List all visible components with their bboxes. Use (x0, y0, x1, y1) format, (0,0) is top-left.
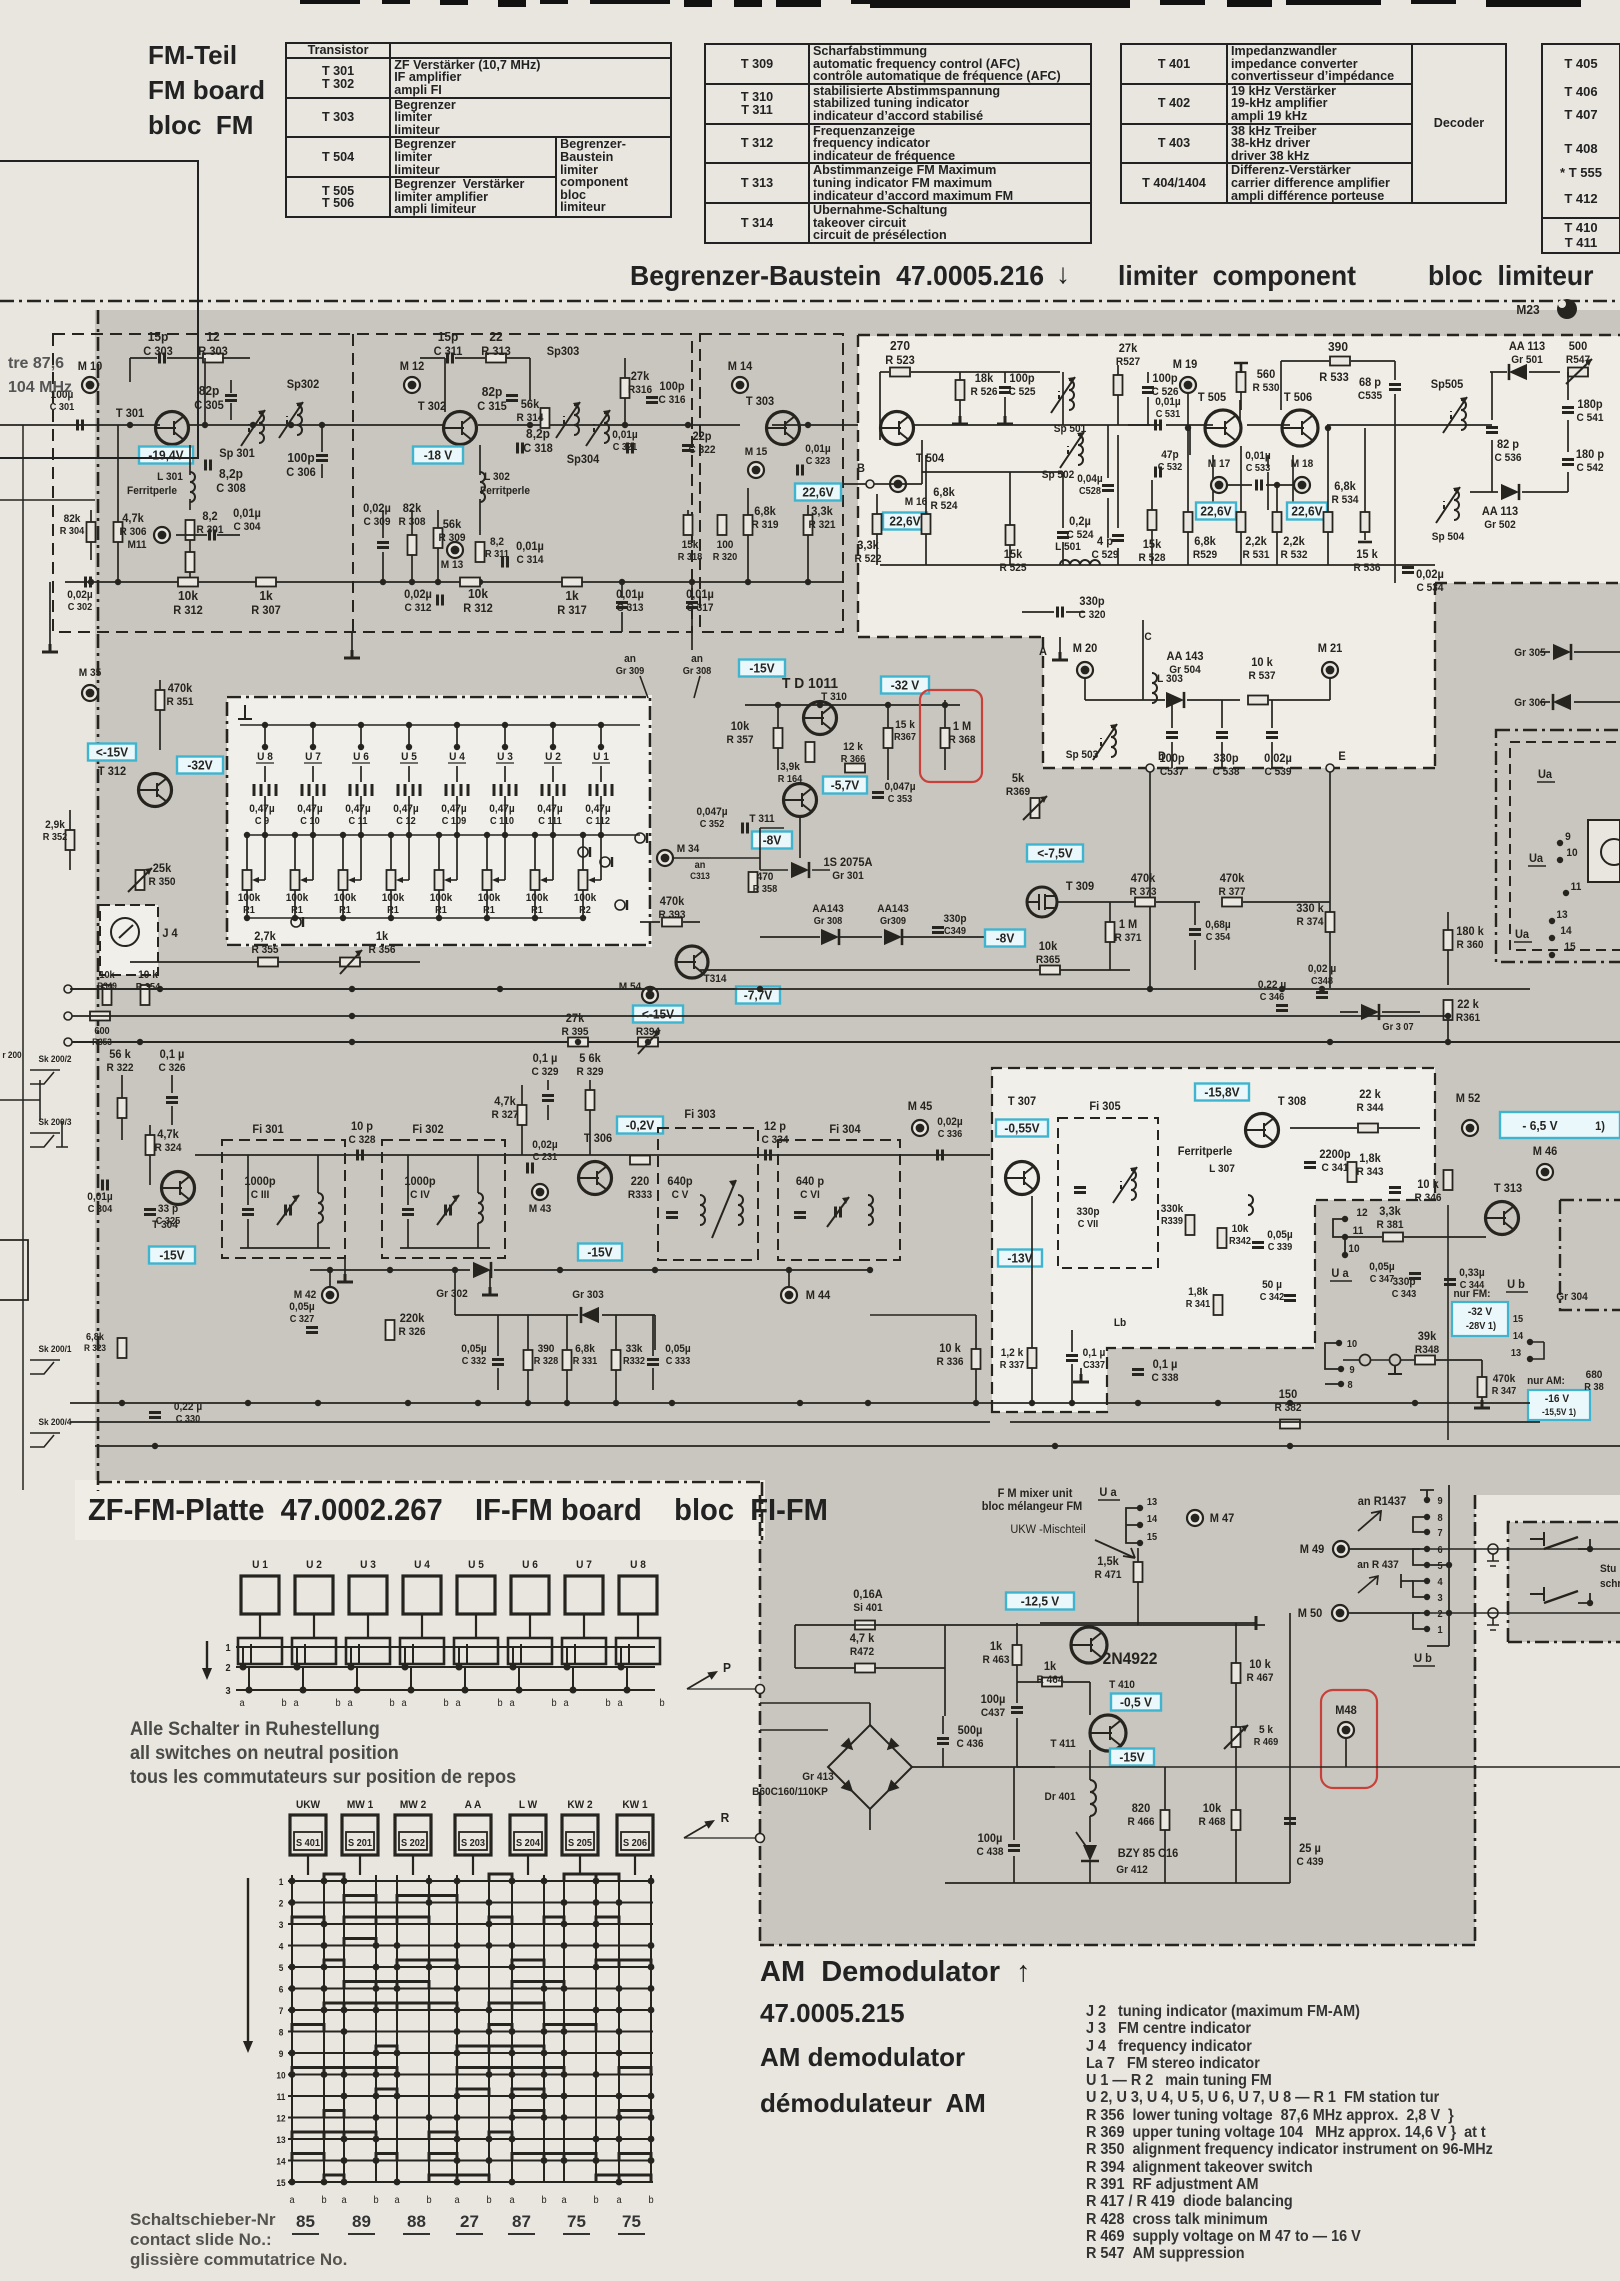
capacitor C539 0,02µ (1266, 733, 1278, 738)
voltage label -15V T304 (149, 1247, 195, 1264)
svg-text:Gr 305: Gr 305 (1514, 647, 1546, 659)
svg-text:2: 2 (1437, 1609, 1442, 1620)
svg-text:Fi 303: Fi 303 (684, 1109, 715, 1121)
capacitor C 111 0,47µ (542, 784, 564, 796)
svg-text:82 p: 82 p (1497, 439, 1519, 451)
voltage label -0,55V (996, 1120, 1048, 1137)
matrix column (396, 1875, 398, 2182)
voltage label -0,2V (617, 1117, 663, 1134)
capacitor C302 0,02µ (86, 577, 91, 588)
svg-text:330p: 330p (1079, 596, 1104, 608)
diode AA143 Gr309 (884, 929, 902, 945)
variable cap CIII (286, 1205, 291, 1216)
measurement point M35 (82, 685, 98, 701)
resistor R343 1,8k (1348, 1162, 1357, 1182)
svg-text:0,02µ: 0,02µ (1264, 753, 1292, 765)
svg-text:Sp 503: Sp 503 (1066, 749, 1099, 761)
svg-text:0,47µ: 0,47µ (345, 803, 370, 815)
resistor R320 100 (718, 515, 727, 535)
svg-text:AA 113: AA 113 (1509, 341, 1545, 353)
svg-text:10k: 10k (468, 587, 488, 602)
svg-text:C 318: C 318 (523, 443, 553, 455)
svg-text:C 110: C 110 (490, 816, 514, 827)
svg-text:0,1 µ: 0,1 µ (1083, 1347, 1106, 1359)
svg-text:U 6: U 6 (522, 1559, 538, 1571)
svg-text:nur FM:: nur FM: (1453, 1288, 1490, 1300)
svg-text:3: 3 (1437, 1593, 1442, 1604)
svg-text:10k: 10k (178, 589, 198, 604)
svg-text:R2: R2 (579, 905, 591, 916)
left rail end connectors (64, 985, 72, 993)
svg-text:6: 6 (279, 1984, 284, 1994)
svg-text:P: P (723, 1661, 731, 1676)
svg-text:C 317: C 317 (687, 602, 714, 614)
svg-text:1k: 1k (565, 589, 578, 604)
svg-text:C V: C V (672, 1189, 689, 1201)
svg-text:R 347: R 347 (1492, 1386, 1517, 1397)
resistor R317 1k (562, 578, 582, 587)
svg-text:R316: R316 (628, 384, 652, 396)
svg-text:470: 470 (757, 871, 774, 883)
svg-text:0,01µ: 0,01µ (805, 443, 830, 455)
svg-text:R 324: R 324 (155, 1142, 182, 1154)
wire T311 emitter (799, 816, 801, 858)
wire U 8 down (264, 796, 266, 835)
limiter area dashed border bottom-left (858, 636, 1043, 638)
resistor R536 15k (1361, 512, 1370, 532)
svg-text:10: 10 (1347, 1339, 1357, 1350)
svg-text:B60C160/110KP: B60C160/110KP (752, 1786, 828, 1798)
svg-text:0,16A: 0,16A (853, 1589, 883, 1601)
band switch S 204 (510, 1815, 546, 1855)
svg-text:C528: C528 (1079, 486, 1102, 497)
svg-text:6,8k: 6,8k (1194, 536, 1216, 548)
svg-text:6,8k: 6,8k (754, 506, 776, 518)
svg-text:U 2: U 2 (306, 1559, 322, 1571)
node E (1326, 764, 1334, 772)
resistor R309 56k (434, 528, 443, 548)
resistor R337 1,2k (1028, 1348, 1037, 1368)
capacitor CV 640p (666, 1213, 678, 1218)
svg-text:L 303: L 303 (1157, 673, 1183, 685)
svg-text:R 374: R 374 (1297, 916, 1324, 928)
matrix dots and bridges (289, 1878, 296, 1885)
svg-text:T 313: T 313 (1494, 1183, 1522, 1195)
choke Dr401 (1090, 1780, 1096, 1816)
svg-text:68 p: 68 p (1359, 377, 1381, 389)
resistor R371 1M (1106, 922, 1115, 942)
capacitor C315 82p (506, 396, 518, 401)
signal rail top section (0, 424, 160, 426)
svg-text:500: 500 (1569, 341, 1587, 353)
capacitor C329 (542, 1096, 554, 1101)
transistor T310 (804, 702, 837, 735)
svg-text:8: 8 (1437, 1513, 1443, 1524)
resistor R468 10k (1232, 1810, 1241, 1830)
svg-text:640p: 640p (667, 1176, 692, 1188)
svg-text:15k: 15k (1004, 549, 1023, 561)
svg-text:0,02µ: 0,02µ (363, 503, 391, 515)
svg-text:470k: 470k (1220, 873, 1245, 885)
svg-text:100k: 100k (334, 892, 357, 904)
svg-text:M 50: M 50 (1298, 1608, 1323, 1620)
coil Fi301 (318, 1193, 323, 1223)
svg-text:Sp 502: Sp 502 (1042, 469, 1075, 481)
resistor R393 470k (662, 918, 682, 927)
capacitor C538 330p (1216, 733, 1228, 738)
resistor R307 1k (256, 578, 276, 587)
svg-text:10: 10 (1566, 847, 1577, 859)
svg-text:3,3k: 3,3k (857, 540, 879, 552)
svg-text:10 k: 10 k (939, 1343, 961, 1355)
transistor T411 (1090, 1715, 1126, 1751)
svg-text:M11: M11 (127, 539, 146, 551)
measurement point M15 (748, 462, 764, 478)
svg-text:12: 12 (206, 330, 219, 345)
diode Gr307 (1361, 1004, 1379, 1020)
rail AM bottom (945, 1882, 1290, 1884)
svg-text:R361: R361 (1456, 1012, 1480, 1024)
capacitor C529 4p (1112, 536, 1124, 541)
transistor T302 (444, 412, 477, 445)
svg-text:C 525: C 525 (1009, 386, 1036, 398)
resistor R367 15k (884, 728, 893, 748)
capacitor C231 0,02µ (528, 1163, 533, 1174)
resistor R333 220 (630, 1156, 650, 1165)
svg-text:0,01µ: 0,01µ (1245, 450, 1270, 462)
svg-text:C: C (1144, 631, 1152, 643)
capacitor C525 100p (999, 388, 1011, 393)
resistor R303 12 (203, 354, 223, 363)
svg-text:Ferritperle: Ferritperle (1178, 1146, 1233, 1158)
resistor R354 10k (141, 985, 150, 1005)
svg-text:C 354: C 354 (1206, 932, 1231, 943)
capacitor C322 22p (682, 446, 694, 451)
svg-text:1,8k: 1,8k (1359, 1153, 1381, 1165)
resistor R530 560 (1237, 372, 1246, 392)
matrix column (428, 1875, 430, 2182)
svg-text:500µ: 500µ (958, 1725, 983, 1737)
capacitor C332 0,05µ (492, 1360, 504, 1365)
svg-text:C 315: C 315 (477, 401, 507, 413)
capacitor C344 0,33µ (1444, 1280, 1456, 1285)
resistor R331 6,8k (563, 1350, 572, 1370)
svg-text:9: 9 (1349, 1365, 1354, 1376)
capacitor C317 0,01µ (686, 603, 698, 608)
matrix column (291, 1875, 293, 2182)
svg-text:10: 10 (276, 2070, 285, 2080)
wire C526 col (1147, 372, 1149, 383)
decoder connector box (1560, 1200, 1620, 1310)
svg-text:5k: 5k (1012, 773, 1025, 785)
svg-text:C 320: C 320 (1079, 609, 1106, 621)
svg-text:R 466: R 466 (1128, 1816, 1155, 1828)
svg-text:Fi 305: Fi 305 (1089, 1101, 1121, 1113)
svg-text:R 303: R 303 (198, 346, 227, 358)
svg-text:4,7k: 4,7k (494, 1096, 516, 1108)
svg-text:b: b (389, 1698, 394, 1709)
matrix column (563, 1875, 565, 2182)
svg-text:22p: 22p (692, 431, 711, 443)
capacitor C349 330p (932, 928, 944, 933)
svg-text:3,9k: 3,9k (780, 761, 800, 773)
svg-text:R1: R1 (435, 905, 447, 916)
svg-text:0,1 µ: 0,1 µ (160, 1049, 185, 1061)
capacitor C537 100p (1166, 733, 1178, 738)
FM stage dashed box divider (352, 334, 354, 632)
svg-text:820: 820 (1132, 1803, 1150, 1815)
variable cap CVI (836, 1207, 841, 1218)
svg-text:Sp505: Sp505 (1431, 379, 1464, 391)
svg-text:0,02 µ: 0,02 µ (1308, 963, 1336, 975)
svg-text:R333: R333 (628, 1189, 652, 1201)
tuning section U 3 (502, 722, 508, 728)
capacitor C321 0,01µ (628, 443, 633, 454)
svg-text:R332: R332 (623, 1356, 645, 1367)
svg-text:1000p: 1000p (404, 1176, 435, 1188)
wires bridge (869, 1703, 871, 1725)
svg-text:T 312: T 312 (98, 766, 126, 778)
arrow P (687, 1672, 716, 1689)
band switch S 201 (342, 1815, 378, 1855)
svg-text:-32V: -32V (187, 758, 213, 773)
svg-text:U 8: U 8 (257, 751, 273, 763)
svg-text:6,8k: 6,8k (1334, 481, 1356, 493)
measurement point M12 (404, 377, 420, 393)
svg-text:390: 390 (1328, 340, 1348, 355)
coil L501 (1060, 560, 1100, 565)
svg-text:470k: 470k (1493, 1373, 1516, 1385)
svg-text:a: a (341, 2195, 347, 2206)
svg-text:C 339: C 339 (1268, 1242, 1293, 1253)
svg-text:C 347: C 347 (1370, 1274, 1395, 1285)
svg-text:7: 7 (1437, 1528, 1442, 1539)
svg-text:Ferritperle: Ferritperle (127, 485, 177, 497)
filter box Fi303 (658, 1128, 758, 1260)
svg-text:6,8k: 6,8k (575, 1343, 595, 1355)
ground stage1 (42, 644, 58, 652)
svg-text:5: 5 (279, 1963, 284, 1973)
svg-text:Sk 200/1: Sk 200/1 (38, 1344, 71, 1354)
capacitor CIV 1000p (402, 1210, 414, 1215)
svg-text:Gr 304: Gr 304 (1556, 1291, 1588, 1303)
svg-text:180 k: 180 k (1456, 926, 1484, 938)
capacitor C437 100µ (1011, 1708, 1023, 1713)
resistor R344 22k (1358, 1124, 1378, 1133)
svg-text:C 532: C 532 (1158, 462, 1183, 473)
resistor R529 6,8k (1184, 512, 1193, 532)
svg-text:0,01µ: 0,01µ (1155, 396, 1180, 408)
svg-text:0,01µ: 0,01µ (233, 508, 261, 520)
svg-text:C 306: C 306 (286, 467, 315, 479)
left margin vertical wire (22, 425, 24, 1490)
svg-text:1: 1 (225, 1643, 231, 1654)
svg-text:0,05µ: 0,05µ (461, 1343, 486, 1355)
svg-text:R 530: R 530 (1253, 382, 1280, 394)
FM stage dashed box 1 (53, 334, 692, 632)
svg-text:a: a (239, 1698, 245, 1709)
svg-text:100: 100 (717, 539, 734, 551)
coil Sp505 (1461, 400, 1466, 430)
measurement point M20 (1077, 662, 1093, 678)
svg-text:1,5k: 1,5k (1097, 1556, 1119, 1568)
red box M48 (1321, 1690, 1377, 1788)
wire U 3 down (504, 796, 506, 835)
transistor T506 (1282, 410, 1318, 446)
svg-text:R1: R1 (483, 905, 495, 916)
svg-text:0,02µ: 0,02µ (67, 589, 92, 601)
measurement point M47 (1187, 1510, 1203, 1526)
svg-text:C 330: C 330 (176, 1414, 201, 1425)
svg-text:-0,55V: -0,55V (1004, 1121, 1040, 1136)
svg-text:T 303: T 303 (746, 396, 774, 408)
svg-text:b: b (443, 1698, 448, 1709)
svg-text:R 537: R 537 (1249, 670, 1276, 682)
capacitor C311 15p (448, 353, 453, 364)
svg-text:U 5: U 5 (401, 751, 417, 763)
svg-text:M 47: M 47 (1210, 1513, 1235, 1525)
svg-text:T 311: T 311 (749, 813, 774, 825)
svg-text:R 471: R 471 (1095, 1569, 1122, 1581)
svg-text:Sk 200/2: Sk 200/2 (38, 1054, 71, 1064)
svg-text:-8V: -8V (763, 833, 782, 848)
switch symbols mid (1360, 1355, 1371, 1366)
svg-text:R 468: R 468 (1199, 1816, 1226, 1828)
svg-text:M 35: M 35 (79, 667, 102, 679)
capacitor C330 0,22µ (149, 1413, 161, 1418)
svg-text:Sp304: Sp304 (567, 454, 600, 466)
svg-text:R 326: R 326 (399, 1326, 426, 1338)
svg-text:T 506: T 506 (1284, 392, 1312, 404)
resistor R329 (586, 1090, 595, 1110)
limiter area dashed border inner vertical (1042, 637, 1044, 768)
coil Fi303 pair (700, 1195, 705, 1225)
potentiometer R1 100k (243, 870, 252, 890)
voltage label -12,5V (1006, 1593, 1074, 1610)
svg-text:AA143: AA143 (877, 903, 909, 915)
svg-text:S 401: S 401 (296, 1838, 321, 1849)
svg-text:R 337: R 337 (1000, 1360, 1025, 1371)
svg-text:UKW: UKW (296, 1799, 320, 1811)
resistor R342 10k (1218, 1228, 1227, 1248)
voltage label -7,7V (736, 987, 780, 1004)
svg-text:C 529: C 529 (1092, 549, 1119, 561)
band switch S 202 (395, 1815, 431, 1855)
resistor R312 10k (178, 578, 198, 587)
svg-text:1: 1 (279, 1877, 284, 1887)
svg-text:0,02µ: 0,02µ (1416, 569, 1444, 581)
svg-text:330p: 330p (1213, 753, 1238, 765)
svg-text:33k: 33k (626, 1343, 643, 1355)
gray background AM demodulator block (760, 1495, 1475, 1945)
resistor R537 10k (1248, 696, 1268, 705)
svg-text:C 336: C 336 (938, 1129, 963, 1140)
resistor R467 10k (1232, 1663, 1241, 1683)
svg-text:M 43: M 43 (529, 1203, 552, 1215)
svg-text:0,047µ: 0,047µ (696, 806, 727, 818)
resistor R464 1k (1042, 1678, 1062, 1687)
svg-text:330k: 330k (1161, 1203, 1184, 1215)
voltage label -5,7V (823, 777, 867, 794)
AM demodulator block left border (759, 1495, 762, 1945)
svg-text:0,04µ: 0,04µ (1077, 473, 1102, 485)
svg-text:R 312: R 312 (173, 605, 202, 617)
capacitor C341 2200p (1304, 1163, 1316, 1168)
switch square U 7 (565, 1576, 603, 1614)
svg-text:D: D (1158, 751, 1166, 763)
svg-text:C 11: C 11 (349, 816, 369, 827)
svg-text:C 304: C 304 (88, 1204, 113, 1215)
resistor R463 1k (1013, 1645, 1022, 1665)
svg-text:Dr 401: Dr 401 (1045, 1791, 1076, 1803)
transistor T504 (881, 412, 914, 445)
svg-text:27k: 27k (631, 371, 650, 383)
matrix column (618, 1875, 620, 2182)
matrix column (650, 1875, 652, 2182)
svg-text:2: 2 (225, 1663, 230, 1674)
svg-text:b: b (593, 2195, 598, 2206)
svg-text:Ua: Ua (1538, 769, 1553, 781)
capacitor C309 0,02µ (377, 543, 389, 548)
svg-text:U a: U a (1099, 1487, 1117, 1499)
variable cap Sp501 area (1069, 380, 1074, 410)
matrix column (343, 1875, 345, 2182)
svg-text:R 395: R 395 (562, 1026, 589, 1038)
resistor R531 2,2k (1237, 512, 1246, 532)
svg-text:U b: U b (1507, 1279, 1525, 1291)
tuning section U 6 (358, 722, 364, 728)
switch square U 6 (511, 1576, 549, 1614)
svg-text:C 312: C 312 (405, 602, 432, 614)
svg-text:0,01µ: 0,01µ (616, 589, 644, 601)
svg-text:6,8k: 6,8k (86, 1332, 105, 1343)
diode Gr302 (473, 1262, 491, 1278)
svg-text:640 p: 640 p (796, 1176, 824, 1188)
resistor R528 15k (1148, 510, 1157, 530)
svg-text:E: E (1338, 751, 1346, 763)
resistor R526 18k (956, 380, 965, 400)
resistor R532 2,2k (1273, 512, 1282, 532)
resistor R321 3,3k (804, 515, 813, 535)
svg-text:b: b (659, 1698, 664, 1709)
svg-text:A A: A A (465, 1799, 482, 1811)
svg-text:b: b (497, 1698, 502, 1709)
svg-text:C IV: C IV (410, 1189, 430, 1201)
svg-text:S 203: S 203 (461, 1838, 485, 1849)
svg-text:12: 12 (1356, 1207, 1367, 1219)
svg-text:C 327: C 327 (290, 1314, 315, 1325)
svg-text:0,47µ: 0,47µ (537, 803, 562, 815)
T307 T308 dashed border (992, 1068, 1435, 1412)
svg-text:C III: C III (251, 1189, 270, 1201)
resistor R314 56k (541, 408, 550, 428)
svg-text:R 469: R 469 (1254, 1737, 1279, 1748)
svg-text:C535: C535 (1358, 390, 1382, 402)
svg-text:-15,8V: -15,8V (1204, 1085, 1240, 1100)
svg-text:10k: 10k (99, 970, 115, 981)
svg-text:L 307: L 307 (1209, 1163, 1235, 1175)
capacitor C343 330p (1389, 1188, 1401, 1193)
svg-text:R 343: R 343 (1357, 1166, 1384, 1178)
switch connector row 1 (238, 1638, 282, 1664)
svg-text:M23: M23 (1516, 303, 1539, 318)
svg-text:12 p: 12 p (764, 1121, 786, 1133)
filter box Fi301 (222, 1140, 345, 1258)
svg-text:M 18: M 18 (1291, 458, 1314, 470)
capacitor C 9 0,47µ (254, 784, 276, 796)
svg-text:R 327: R 327 (492, 1109, 519, 1121)
svg-text:R 528: R 528 (1139, 552, 1166, 564)
